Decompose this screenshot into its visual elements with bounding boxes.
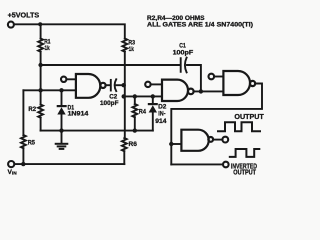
svg-text:1k: 1k xyxy=(129,46,134,53)
svg-text:100pF: 100pF xyxy=(100,100,119,107)
svg-text:914: 914 xyxy=(155,118,167,125)
svg-text:C1: C1 xyxy=(179,42,186,49)
svg-text:+5VOLTS: +5VOLTS xyxy=(8,13,40,20)
svg-text:OUTPUT: OUTPUT xyxy=(234,112,264,121)
svg-text:R2: R2 xyxy=(28,106,36,113)
svg-text:R4: R4 xyxy=(139,109,146,116)
svg-text:OUTPUT: OUTPUT xyxy=(233,168,256,177)
svg-text:D2: D2 xyxy=(158,103,167,110)
svg-text:VIN: VIN xyxy=(8,169,18,177)
svg-text:R5: R5 xyxy=(28,139,36,146)
svg-text:ALL GATES ARE 1/4 SN7400(TI): ALL GATES ARE 1/4 SN7400(TI) xyxy=(147,22,253,29)
svg-text:100pF: 100pF xyxy=(173,50,194,57)
svg-text:R6: R6 xyxy=(129,141,138,148)
svg-text:IN-: IN- xyxy=(158,111,165,118)
svg-text:1N914: 1N914 xyxy=(68,110,89,117)
svg-text:1k: 1k xyxy=(45,45,50,52)
